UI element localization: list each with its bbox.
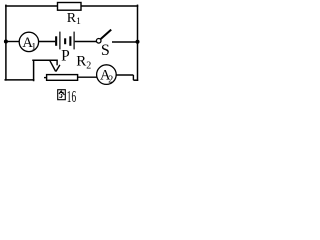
svg-text:P: P — [61, 47, 70, 64]
wire battery to switch — [75, 41, 97, 43]
rheostat left stub — [44, 77, 47, 79]
wiper arrow drop — [56, 60, 58, 66]
svg-text:16: 16 — [67, 87, 76, 105]
wire mid left — [6, 41, 20, 43]
wire switch to right side — [112, 41, 138, 43]
wire riser to wiper — [33, 60, 35, 80]
node dot left — [4, 40, 8, 44]
ammeter A1 — [19, 32, 38, 51]
resistor R1 — [58, 3, 82, 11]
wire bottom left segment — [5, 79, 33, 81]
wire A2 to right side — [116, 74, 133, 76]
wire top side — [6, 5, 138, 7]
svg-text:2: 2 — [108, 75, 113, 86]
wire bottom right segment — [133, 79, 138, 81]
wiper arrow left arm — [50, 60, 56, 71]
node dot right — [136, 40, 140, 44]
rheostat R2 body — [47, 75, 78, 81]
caption figure 图 glyph — [58, 90, 66, 100]
ammeter A2 — [97, 65, 117, 85]
wire step down — [132, 75, 134, 80]
wiper arrow right arm — [56, 65, 60, 72]
wire left side — [5, 5, 7, 80]
switch S lever — [101, 30, 112, 39]
wire to wiper P — [33, 59, 57, 61]
switch S pivot — [96, 39, 101, 44]
battery — [55, 32, 75, 50]
svg-text:S: S — [101, 42, 110, 59]
wire rheostat to A2 — [78, 76, 97, 78]
wire right side — [137, 5, 139, 80]
wire A1 to battery — [39, 41, 56, 43]
svg-text:1: 1 — [31, 42, 36, 53]
